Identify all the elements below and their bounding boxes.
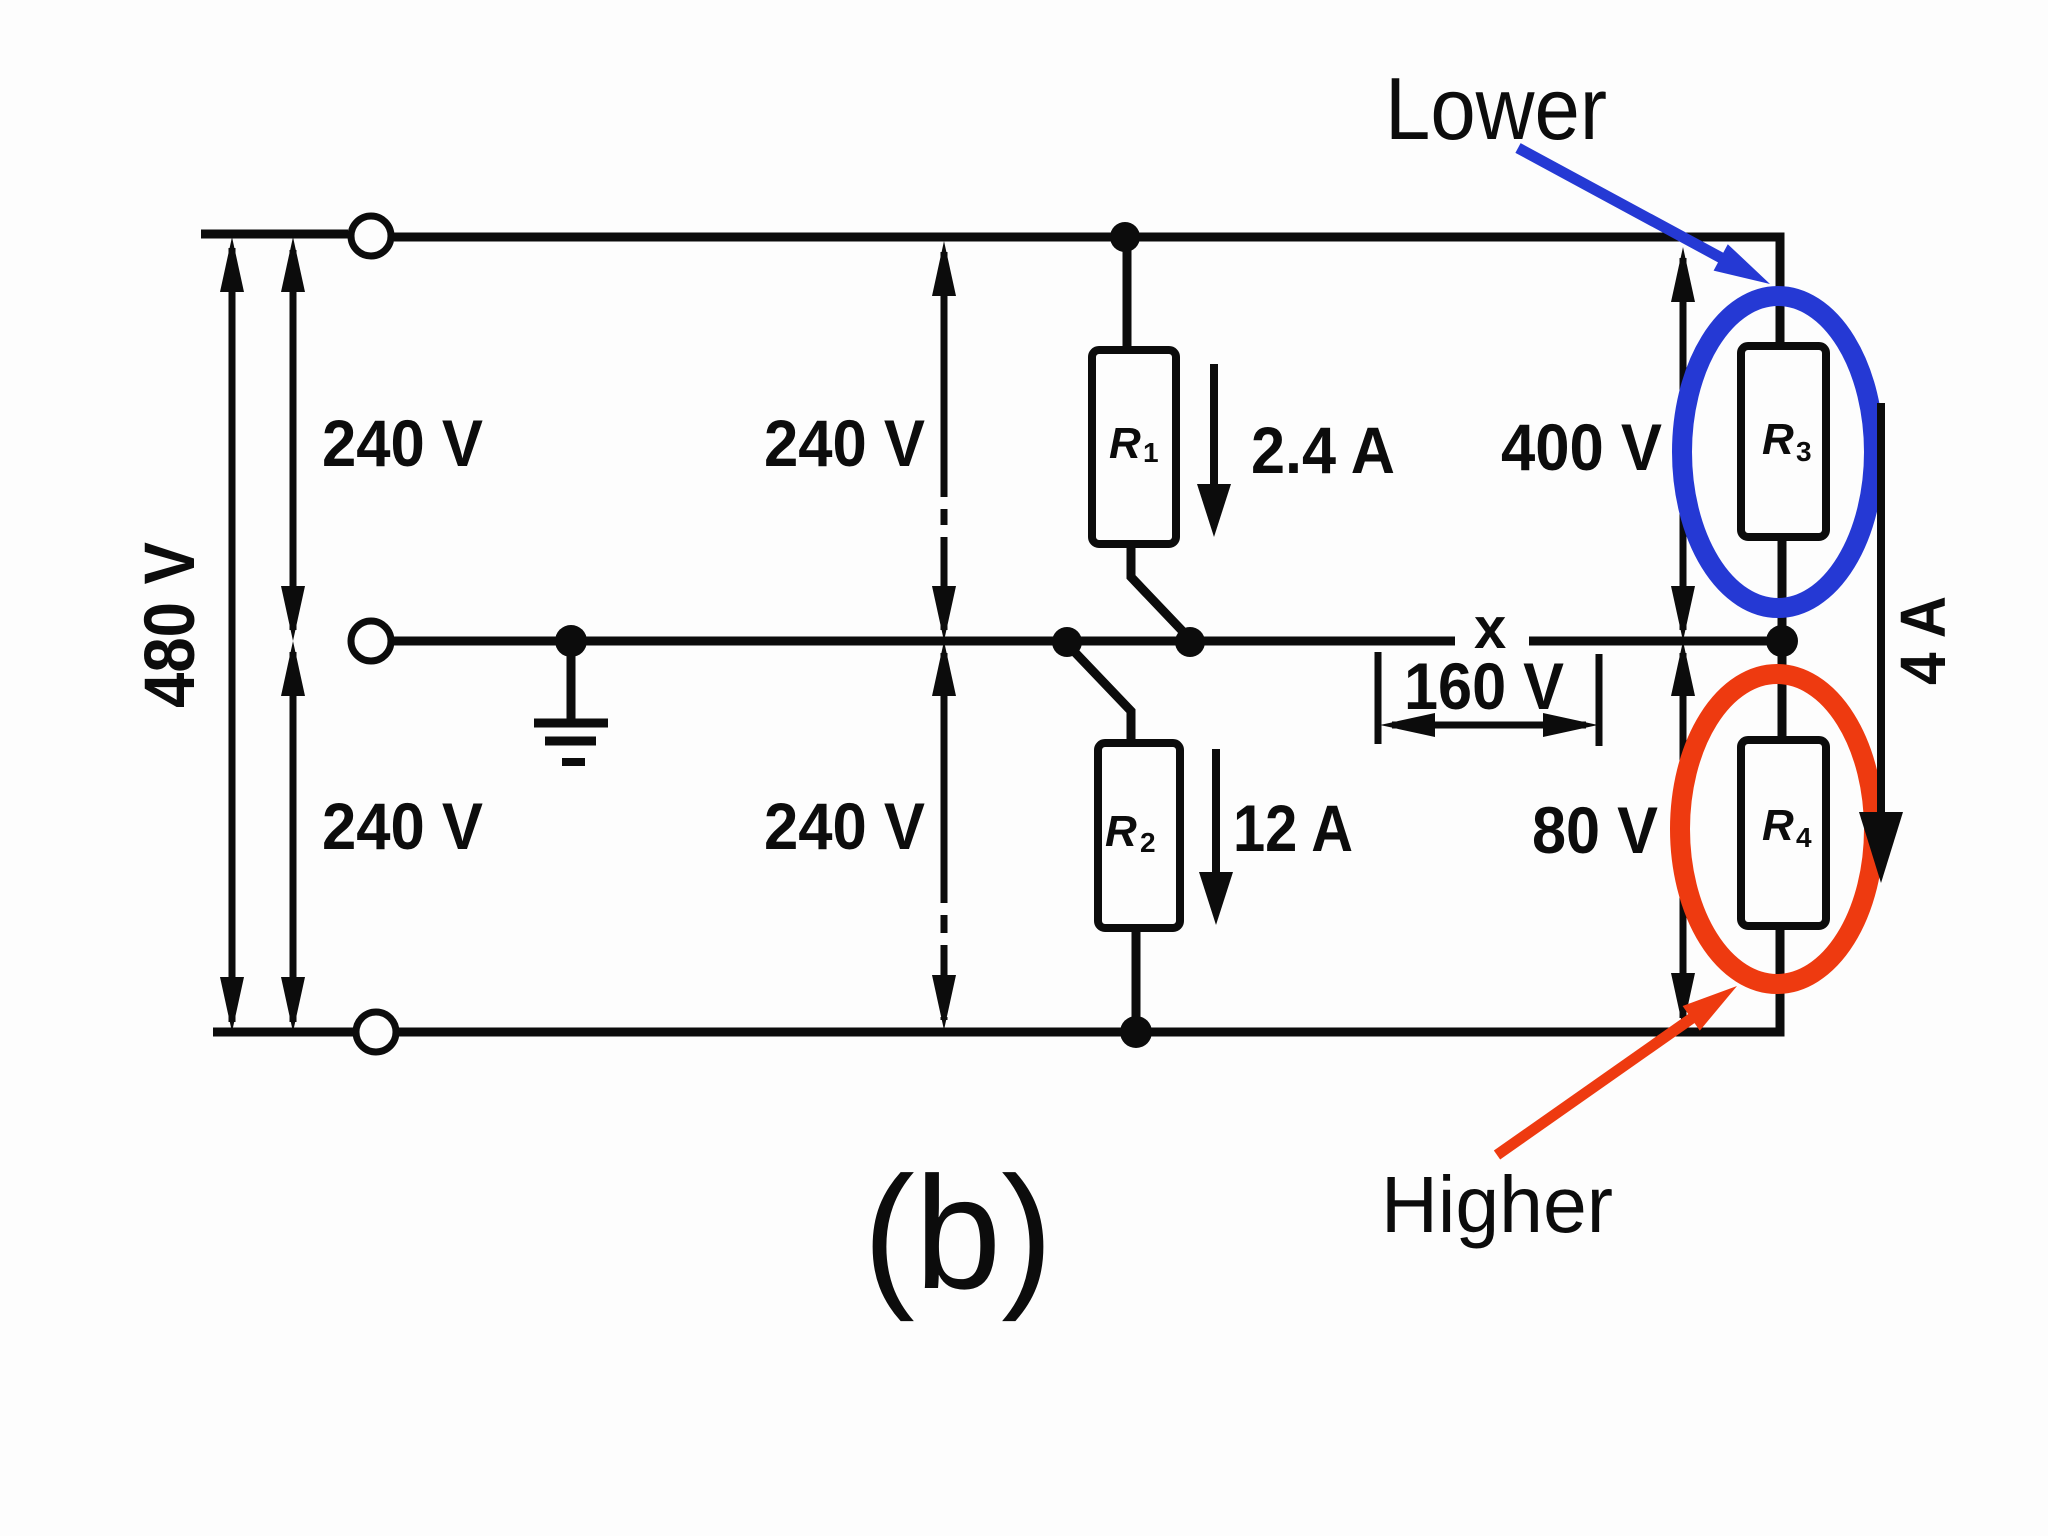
terminal bottom [356,1012,396,1052]
wire R1 bottom lead diagonal [1131,544,1190,639]
svg-text:Higher: Higher [1381,1160,1613,1249]
svg-text:Lower: Lower [1385,59,1607,158]
wire bottom bus (line B) [399,926,1780,1032]
ground [534,641,608,762]
junction dot neutral at R2 branch [1052,627,1082,657]
current arrow 4 A [1859,403,1903,883]
wire R1 top lead [1123,237,1132,350]
svg-text:160 V: 160 V [1404,649,1564,723]
svg-text:2.4 A: 2.4 A [1251,413,1395,487]
current arrow 2.4 A [1197,364,1231,537]
annotation blue arrow [1518,148,1770,284]
junction dot neutral at R1 branch [1175,627,1205,657]
svg-text:(b): (b) [863,1143,1053,1322]
wire R4 top lead [1778,641,1787,740]
junction dot on top bus at R1 [1110,222,1140,252]
terminal middle [351,621,391,661]
wire R2 top lead diagonal [1067,644,1131,743]
wire middle bus right of gap [1529,637,1780,646]
svg-text:1: 1 [1143,437,1159,468]
svg-text:4 A: 4 A [1887,596,1959,685]
dimension 240 V upper-left line [281,237,305,641]
dimension 400 V line [1671,247,1695,641]
dimension 240 V lower-left line [281,641,305,1032]
svg-text:240 V: 240 V [322,406,483,480]
wire R3 bottom lead [1778,537,1787,641]
dimension 240 V mid lower line (dashed) [932,641,956,1030]
svg-text:R: R [1109,419,1141,468]
junction dot node x (R3/R4) [1766,625,1798,657]
wire extension tick bottom-left [213,1028,353,1037]
svg-text:240 V: 240 V [764,789,925,863]
svg-text:480 V: 480 V [131,542,210,708]
annotation red ellipse around R4 [1680,674,1874,984]
current arrow 12 A [1199,749,1233,925]
resistor R3 [1741,346,1826,537]
junction dot bottom bus at R2 [1120,1016,1152,1048]
dimension 240 V mid upper line (dashed) [932,241,956,641]
annotation red arrow [1497,986,1737,1155]
svg-text:12 A: 12 A [1233,791,1353,865]
svg-text:2: 2 [1140,827,1156,858]
wire top bus (line A) [394,237,1780,346]
resistor R1 [1092,350,1176,544]
resistor R2 [1098,743,1180,928]
svg-text:R: R [1762,801,1794,850]
svg-text:240 V: 240 V [322,789,483,863]
wire extension tick top-left [201,230,348,239]
wire R2 bottom lead [1132,928,1141,1032]
dimension 480 V line [220,237,244,1032]
wire middle bus (neutral) left of gap [394,637,1455,646]
svg-text:R: R [1762,415,1794,464]
svg-text:R: R [1105,807,1137,856]
svg-text:4: 4 [1796,822,1812,853]
dimension 80 V line [1671,641,1695,1028]
svg-text:3: 3 [1796,436,1812,467]
svg-text:400 V: 400 V [1501,410,1662,484]
junction dot neutral at ground [555,625,587,657]
resistor R4 [1741,740,1826,926]
svg-text:80 V: 80 V [1532,793,1658,867]
dimension 160 V [1378,652,1599,746]
svg-text:240 V: 240 V [764,406,925,480]
annotation blue ellipse around R3 [1682,296,1874,608]
terminal top [351,216,391,256]
